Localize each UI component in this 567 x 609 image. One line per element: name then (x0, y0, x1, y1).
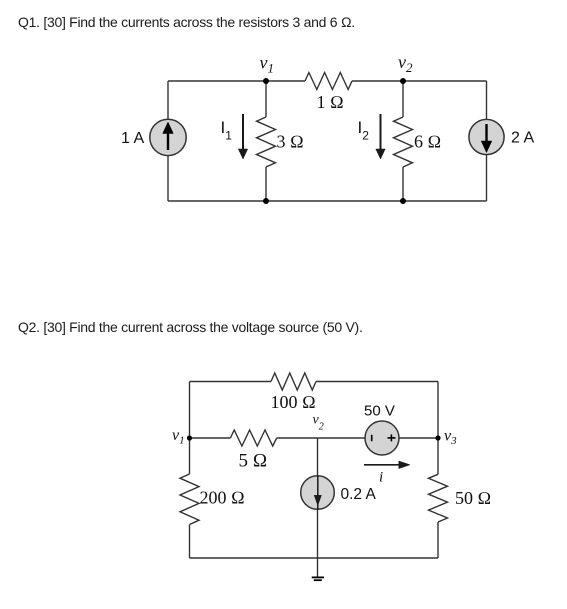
resistor R 50ohm zigzag (429, 474, 448, 522)
wire c2 left vertical upper (189, 382, 191, 475)
resistor R 200ohm zigzag (180, 474, 199, 525)
current source 1A arrow (163, 122, 174, 150)
node c2 v3 dot (435, 435, 440, 440)
wire c2 middle horizontal 5ohm-50V (277, 437, 365, 439)
node v1 dot (263, 78, 269, 84)
svg-text:200 Ω: 200 Ω (200, 488, 245, 508)
wire c1 branch v1 lower (265, 167, 267, 201)
svg-text:2 A: 2 A (511, 130, 534, 147)
svg-text:100 Ω: 100 Ω (271, 392, 316, 412)
node c1 bottom-right dot (400, 198, 406, 204)
wire c2 middle horizontal v1-5ohm (190, 437, 231, 439)
voltage source 50V circle (365, 421, 399, 455)
resistor R 5ohm zigzag (230, 430, 276, 446)
svg-text:v2: v2 (398, 52, 413, 75)
svg-text:v3: v3 (444, 428, 457, 448)
wire c2 top-left segment (190, 381, 272, 383)
wire c1 right vertical (486, 81, 488, 201)
wire ground stub (317, 558, 319, 577)
resistor R 6ohm zigzag (394, 117, 413, 167)
resistor R 1ohm zigzag (305, 73, 352, 90)
question Q1 text (18, 14, 355, 30)
arrow i (364, 461, 410, 469)
svg-text:6 Ω: 6 Ω (414, 132, 441, 152)
wire c2 right vertical upper (437, 382, 439, 475)
node c2 v1 dot (187, 435, 192, 440)
current source 0.2A arrow (314, 476, 321, 509)
svg-text:I1: I1 (221, 118, 233, 143)
svg-text:1 Ω: 1 Ω (317, 92, 344, 112)
arrow I2 (376, 114, 385, 159)
wire c1 top-left segment (168, 80, 305, 82)
wire c2 top-right segment (316, 381, 438, 383)
wire c2 bottom (190, 557, 439, 559)
svg-text:0.2 A: 0.2 A (341, 486, 377, 503)
current source 0.2A circle (301, 476, 335, 510)
node v2 dot (400, 78, 406, 84)
ground symbol (312, 577, 324, 580)
wire c1 branch v2 lower (402, 167, 404, 201)
svg-text:1 A: 1 A (121, 130, 144, 147)
wire c1 top-right segment (352, 80, 487, 82)
current source 2A circle (469, 119, 504, 154)
current source 1A circle (150, 119, 186, 155)
wire c1 bottom (168, 200, 487, 202)
wire c1 left vertical (167, 81, 169, 201)
svg-text:50 V: 50 V (364, 403, 395, 420)
arrow I1 (238, 114, 247, 159)
svg-text:5 Ω: 5 Ω (239, 451, 268, 472)
voltage source plus sign (388, 434, 396, 441)
svg-text:I2: I2 (358, 118, 370, 143)
svg-text:v1: v1 (172, 427, 185, 447)
wire c1 branch v1 upper (265, 81, 267, 117)
svg-text:v1: v1 (260, 53, 275, 76)
resistor R 3ohm zigzag (257, 117, 276, 167)
question Q2 text (18, 319, 363, 335)
wire c2 left vertical lower (189, 525, 191, 559)
wire c2 middle horizontal 50V-v3 (399, 437, 438, 439)
node c1 bottom-left dot (263, 198, 269, 204)
wire c1 branch v2 upper (402, 81, 404, 117)
current source 2A arrow (481, 124, 492, 153)
voltage source left terminal tick (371, 435, 373, 441)
svg-text:50 Ω: 50 Ω (455, 488, 491, 508)
svg-text:3 Ω: 3 Ω (277, 132, 304, 152)
svg-text:v2: v2 (313, 413, 324, 433)
svg-text:i: i (379, 470, 383, 486)
resistor R 100ohm zigzag (271, 373, 316, 390)
wire c2 center vertical (317, 438, 319, 558)
wire c2 right vertical lower (437, 522, 439, 558)
